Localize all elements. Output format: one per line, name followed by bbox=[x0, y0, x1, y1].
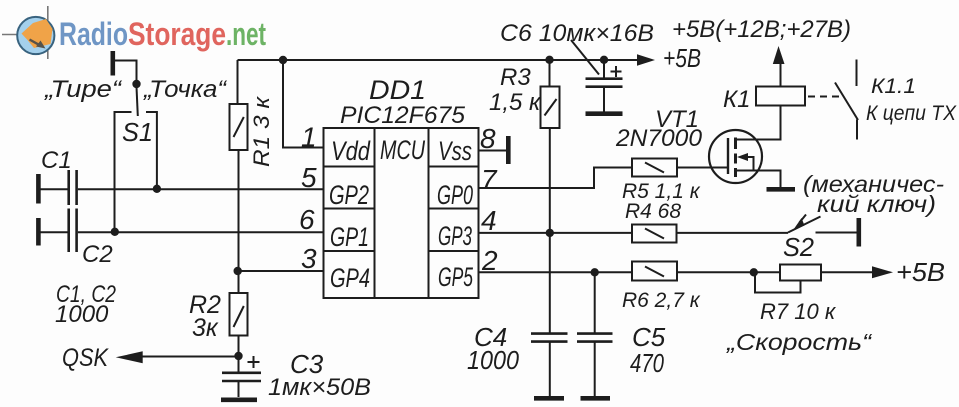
svg-text:GP3: GP3 bbox=[438, 221, 472, 251]
capacitor C2 terminal bar bbox=[36, 218, 41, 246]
IC DD1 PIC12F675 bbox=[324, 128, 479, 298]
node top rail junction R3 bbox=[545, 56, 553, 64]
arrow supply up bbox=[773, 46, 785, 64]
node R1-R2-pin3 junction bbox=[234, 267, 242, 275]
svg-text:К цепи ТХ: К цепи ТХ bbox=[866, 102, 957, 125]
contact K1.1 bbox=[835, 60, 858, 140]
switch S1 left throw bbox=[115, 112, 132, 232]
svg-text:8: 8 bbox=[480, 123, 496, 154]
svg-text:.net: .net bbox=[226, 16, 266, 52]
node R3 branch to pin4 bbox=[546, 229, 554, 237]
svg-text:C1: C1 bbox=[41, 147, 72, 174]
wire R7 to +5V bbox=[821, 271, 874, 273]
VT1 body arrow head bbox=[737, 153, 748, 161]
wire R1 top lead bbox=[237, 60, 239, 104]
svg-text:MCU: MCU bbox=[380, 135, 425, 165]
ground C5 bbox=[581, 396, 611, 401]
resistor R4 bbox=[632, 225, 677, 243]
potentiometer R7 bbox=[780, 265, 821, 281]
svg-text:C2: C2 bbox=[82, 241, 113, 268]
svg-text:К1: К1 bbox=[723, 86, 751, 113]
resistor R1 bbox=[230, 104, 248, 150]
wire pin2 line bbox=[479, 271, 633, 273]
capacitor C6 (electrolytic) bbox=[586, 79, 623, 112]
svg-text:GP5: GP5 bbox=[438, 262, 474, 292]
svg-text:7: 7 bbox=[481, 164, 498, 195]
svg-text:1000: 1000 bbox=[55, 301, 109, 328]
ground VT1 source bbox=[767, 187, 796, 192]
capacitor C3 (electrolytic) bbox=[222, 373, 261, 397]
node top rail junction C6 bbox=[600, 56, 608, 64]
svg-text:К1.1: К1.1 bbox=[871, 75, 916, 98]
capacitor C2 bbox=[40, 209, 77, 253]
svg-text:Storage: Storage bbox=[128, 16, 226, 52]
switch S1 lever bbox=[137, 87, 138, 116]
capacitor C6 branch bbox=[603, 60, 605, 78]
arrow +5V top rail bbox=[637, 54, 655, 66]
wire R7 wiper bbox=[755, 272, 801, 292]
wire pin8 stub bbox=[479, 150, 507, 152]
C6 plus sign bbox=[611, 66, 622, 77]
label C6 callout slash bbox=[571, 40, 599, 75]
resistor R3 bbox=[541, 87, 560, 129]
svg-text:1,5 к: 1,5 к bbox=[489, 89, 542, 116]
switch S1 right throw bbox=[146, 112, 157, 189]
svg-text:QSK: QSK bbox=[62, 344, 109, 372]
capacitor C5 bbox=[577, 334, 613, 396]
svg-text:5: 5 bbox=[301, 162, 317, 193]
node R7 wiper junction bbox=[750, 268, 758, 276]
ground C4 bbox=[534, 396, 564, 401]
wire C2 to pin6 bbox=[78, 231, 324, 233]
resistor R5 bbox=[632, 159, 677, 177]
wire C1 to pin5 bbox=[78, 188, 324, 190]
svg-text:6: 6 bbox=[299, 204, 315, 235]
svg-text:R3: R3 bbox=[500, 64, 531, 91]
wire C4 branch bbox=[549, 233, 551, 333]
switch S1 top terminal bar bbox=[111, 51, 116, 76]
svg-text:4: 4 bbox=[481, 205, 497, 236]
svg-text:Vss: Vss bbox=[438, 136, 472, 166]
svg-text:3к: 3к bbox=[192, 314, 219, 342]
svg-text:GP4: GP4 bbox=[330, 263, 370, 293]
C3 plus sign bbox=[248, 356, 260, 368]
svg-text:GP1: GP1 bbox=[330, 222, 369, 252]
wire R2 to C3 bbox=[238, 336, 240, 373]
svg-text:1: 1 bbox=[301, 122, 317, 153]
wire C5 branch bbox=[594, 272, 596, 333]
node QSK junction bbox=[234, 352, 242, 360]
wire dashed K1 link bbox=[808, 96, 841, 98]
wire K1 to +supply bbox=[780, 62, 782, 87]
svg-text:S1: S1 bbox=[122, 117, 153, 147]
wire pin3 line bbox=[238, 270, 324, 272]
wire pin4 line bbox=[479, 232, 633, 234]
svg-text:3: 3 bbox=[301, 243, 317, 274]
ground S2 terminal bar bbox=[856, 218, 861, 247]
wire QSK line bbox=[140, 356, 239, 358]
svg-text:„Скорость“: „Скорость“ bbox=[726, 329, 873, 355]
svg-text:R6 2,7 к: R6 2,7 к bbox=[622, 289, 701, 312]
node S1 right throw to C1 line bbox=[153, 185, 161, 193]
svg-text:„Тире“: „Тире“ bbox=[44, 76, 123, 103]
capacitor C4 bbox=[531, 334, 568, 396]
svg-text:R1 3 к: R1 3 к bbox=[249, 95, 274, 167]
svg-text:+5В: +5В bbox=[663, 43, 701, 73]
node top rail junction at x283 bbox=[279, 56, 287, 64]
capacitor C1 terminal bar bbox=[36, 174, 41, 204]
svg-text:+5В(+12В;+27В): +5В(+12В;+27В) bbox=[672, 16, 851, 43]
node C5 branch bbox=[591, 268, 599, 276]
wire S2 to bar bbox=[816, 232, 857, 234]
svg-text:Radio: Radio bbox=[59, 16, 128, 52]
arrow QSK bbox=[116, 351, 143, 363]
ground pin8 terminal bar bbox=[506, 136, 511, 164]
logo transistor symbol bbox=[2, 6, 54, 59]
arrow +5V right bbox=[872, 266, 893, 278]
resistor R2 bbox=[230, 293, 248, 336]
svg-text:„Точка“: „Точка“ bbox=[143, 76, 228, 103]
svg-text:R4 68: R4 68 bbox=[625, 200, 681, 223]
wire R3 bottom to pin4 line bbox=[549, 128, 551, 233]
capacitor C1 bbox=[40, 170, 77, 205]
wire pin1 branch vertical bbox=[283, 60, 324, 148]
wire R3 branch bbox=[549, 60, 551, 87]
node S1 common bbox=[132, 80, 140, 88]
svg-text:Vdd: Vdd bbox=[331, 136, 371, 166]
wire S1 common bbox=[115, 61, 137, 82]
wire R6 to R7 bbox=[677, 271, 780, 273]
svg-text:GP0: GP0 bbox=[437, 180, 473, 210]
svg-text:GP2: GP2 bbox=[329, 180, 369, 210]
wire R4 to S2 bbox=[677, 232, 789, 234]
transistor VT1 (MOSFET) bbox=[709, 106, 781, 188]
switch S2 lever bbox=[788, 217, 821, 233]
svg-text:кий ключ): кий ключ) bbox=[817, 191, 936, 217]
wire top +5V rail bbox=[238, 59, 641, 61]
wire R1 to R2 vertical bbox=[238, 150, 240, 293]
svg-text:R7 10 к: R7 10 к bbox=[760, 299, 837, 324]
relay K1 bbox=[756, 87, 805, 106]
svg-text:S2: S2 bbox=[783, 232, 815, 262]
ground C3 bbox=[221, 397, 257, 402]
resistor R6 bbox=[632, 262, 677, 281]
svg-text:470: 470 bbox=[630, 348, 664, 378]
svg-text:PIC12F675: PIC12F675 bbox=[340, 102, 466, 129]
svg-text:C6 10мк×16В: C6 10мк×16В bbox=[500, 20, 654, 47]
svg-text:2N7000: 2N7000 bbox=[615, 125, 703, 152]
svg-text:DD1: DD1 bbox=[369, 75, 426, 105]
ground C6 bbox=[586, 111, 623, 116]
wire pin7 to R5 bbox=[479, 168, 633, 189]
svg-text:1мк×50В: 1мк×50В bbox=[268, 374, 371, 401]
wire R5 to gate bbox=[677, 167, 710, 169]
node S1 left throw to C2 line bbox=[111, 228, 119, 236]
svg-text:1000: 1000 bbox=[467, 345, 519, 375]
switch S2 arrow mark bbox=[800, 215, 807, 223]
svg-text:+5В: +5В bbox=[896, 257, 945, 287]
